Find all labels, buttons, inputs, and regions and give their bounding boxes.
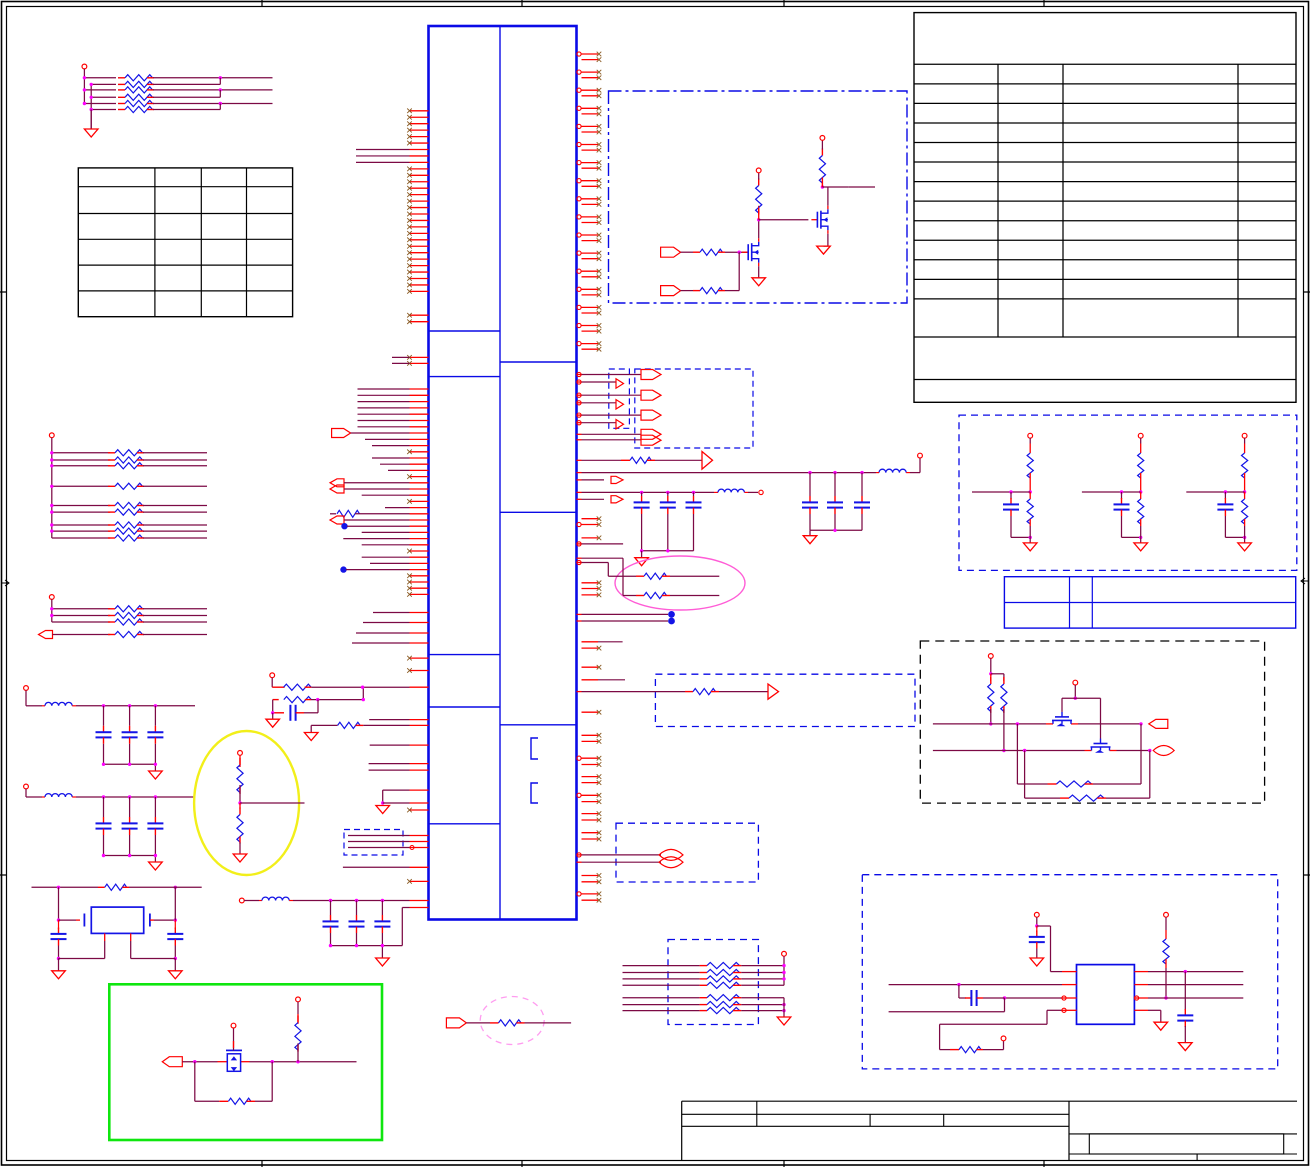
bypass resistor R27 bbox=[194, 1062, 196, 1102]
capacitor C4 bbox=[58, 920, 60, 929]
wire bbox=[104, 763, 156, 765]
wire bbox=[1244, 473, 1246, 492]
wire bbox=[1117, 750, 1150, 752]
wire bbox=[76, 796, 195, 798]
wire drain2 bbox=[827, 187, 829, 206]
wire bbox=[1010, 492, 1012, 499]
power pin bbox=[1242, 433, 1247, 438]
resistor bbox=[118, 100, 154, 106]
wire bbox=[343, 866, 410, 868]
wire bbox=[153, 89, 273, 91]
wire bbox=[1224, 516, 1226, 537]
pull-up resistor bbox=[1138, 453, 1144, 478]
ground bbox=[84, 129, 98, 137]
wire bbox=[153, 96, 220, 98]
capacitor bbox=[827, 496, 843, 514]
ground bbox=[304, 733, 318, 741]
wire bbox=[1082, 491, 1141, 493]
wire bbox=[129, 835, 131, 856]
power pin P3 bbox=[49, 595, 54, 600]
capacitor bbox=[147, 726, 163, 744]
pull-up resistor bbox=[1027, 453, 1033, 478]
crystal stem wires bbox=[104, 933, 106, 941]
power pin P11 bbox=[988, 654, 993, 659]
resistor array B row 2 bbox=[52, 459, 110, 461]
wire bbox=[741, 1004, 784, 1006]
resistor R21 bbox=[681, 290, 693, 292]
resistor bbox=[108, 528, 144, 534]
resistor R30 bbox=[990, 674, 992, 681]
wire bbox=[1010, 516, 1012, 537]
resistor R24 bbox=[237, 758, 243, 794]
wire bbox=[1121, 516, 1123, 537]
resistor R18 bbox=[623, 595, 636, 597]
node dot bbox=[340, 566, 346, 572]
ground bbox=[827, 234, 829, 246]
wire bbox=[143, 465, 207, 467]
IC U1 right pins x group bbox=[582, 581, 602, 598]
wire bbox=[143, 537, 207, 539]
ground bbox=[1036, 949, 1038, 959]
resistor array A row 1 wire bbox=[84, 77, 116, 79]
resistor array A row 2 wire bbox=[91, 83, 116, 85]
pull-down resistor bbox=[1140, 492, 1142, 499]
pull-up resistor bbox=[1242, 453, 1248, 478]
wire bbox=[577, 543, 582, 545]
ground bbox=[233, 854, 247, 862]
resistor array A row 3 wire bbox=[84, 89, 116, 91]
wire bbox=[351, 432, 410, 434]
inductor L3 bbox=[879, 469, 906, 472]
power pin P2 bbox=[49, 433, 54, 438]
resistor array D row 4 bbox=[623, 984, 700, 986]
wire bbox=[154, 744, 156, 765]
resistor array B row 6 bbox=[52, 511, 110, 513]
resistor R20 bbox=[681, 251, 693, 253]
wire bbox=[577, 414, 582, 416]
wire bbox=[369, 719, 409, 721]
wire bbox=[344, 519, 410, 521]
wire bbox=[143, 615, 207, 617]
resistor array B row 5 bbox=[52, 505, 110, 507]
power pin P16 bbox=[239, 898, 244, 903]
wire bbox=[58, 887, 60, 920]
input connector arrow bbox=[330, 516, 344, 524]
transistor Q5 bbox=[1085, 739, 1117, 753]
wire bbox=[143, 634, 207, 636]
wire bbox=[347, 525, 410, 527]
IC U1 section line bbox=[429, 330, 501, 332]
resistor array B row 1 bbox=[52, 452, 110, 454]
resistor R31 bbox=[1001, 677, 1007, 713]
ground bbox=[1154, 1022, 1168, 1030]
ground bbox=[58, 959, 60, 971]
inductor L4 bbox=[714, 491, 718, 493]
wire bbox=[1165, 917, 1167, 930]
wire bbox=[1140, 438, 1142, 443]
output connector lens J6 bbox=[1153, 746, 1174, 756]
wire bbox=[182, 1061, 217, 1063]
wire bbox=[76, 705, 195, 707]
wire bbox=[667, 492, 669, 496]
crystal Y1 body bbox=[91, 907, 143, 933]
ground bbox=[635, 558, 649, 566]
terminal circle bbox=[759, 490, 763, 494]
power pin P7 bbox=[821, 140, 823, 149]
wire bbox=[103, 797, 105, 817]
resistor bbox=[108, 457, 144, 463]
wire to ground bbox=[90, 110, 92, 130]
wire bbox=[642, 550, 694, 552]
dashed group box bbox=[668, 940, 758, 1025]
feedback resistor R32 bbox=[1016, 724, 1018, 784]
wire bbox=[343, 538, 409, 540]
wire bbox=[129, 886, 202, 888]
wire bbox=[25, 789, 27, 797]
green group box bbox=[109, 984, 382, 1140]
IC U1 left pins zone 1 bbox=[356, 109, 429, 325]
capacitor C5 bbox=[167, 928, 183, 946]
wire bbox=[293, 900, 331, 902]
wire bbox=[143, 524, 207, 526]
title block bbox=[682, 1101, 1297, 1160]
IC U1 left pins zone 3 bbox=[358, 389, 429, 427]
ground bbox=[1023, 543, 1037, 551]
output connector arrow bbox=[616, 379, 624, 388]
wire bbox=[174, 887, 176, 920]
wire bbox=[1029, 473, 1031, 492]
wire bbox=[1121, 492, 1123, 499]
ground bbox=[777, 1017, 791, 1025]
capacitor bbox=[122, 817, 138, 835]
resistor R26 bbox=[98, 886, 105, 888]
wire bbox=[693, 514, 695, 551]
wire bbox=[311, 686, 409, 688]
wire pin4 right bbox=[1134, 1009, 1148, 1011]
wire bbox=[143, 608, 207, 610]
wire input 1 bbox=[933, 723, 1046, 725]
input connector arrow bbox=[332, 429, 351, 438]
wire to node dot bbox=[577, 620, 582, 622]
capacitor bbox=[96, 817, 112, 835]
dashed group box bbox=[616, 823, 758, 882]
capacitor C8 bbox=[1184, 972, 1186, 1010]
power pin P15 bbox=[1164, 912, 1169, 917]
resistor array B row 4 bbox=[52, 485, 110, 487]
capacitor bbox=[854, 496, 870, 514]
resistor R22 bbox=[756, 179, 762, 215]
wire bbox=[348, 835, 410, 837]
wire bbox=[154, 706, 156, 726]
output connector arrows bbox=[330, 479, 344, 487]
capacitor bbox=[1114, 498, 1130, 516]
inductor bbox=[42, 705, 45, 707]
wire bbox=[348, 847, 410, 849]
wire bbox=[577, 562, 582, 564]
power pin P8 bbox=[238, 751, 243, 756]
IC U1 right pins zone 4 bbox=[577, 710, 601, 841]
resistor array C row 1 bbox=[52, 608, 110, 610]
ground bbox=[641, 551, 643, 558]
capacitor C20 bbox=[273, 712, 284, 714]
capacitor bbox=[660, 496, 676, 514]
crystal Y1 left plate bbox=[83, 914, 85, 927]
wire bbox=[577, 557, 582, 559]
wire bbox=[304, 712, 318, 714]
wire bbox=[154, 797, 156, 817]
dashed group box bbox=[959, 415, 1297, 570]
ground bbox=[266, 719, 280, 727]
wire bbox=[641, 492, 643, 496]
wire bbox=[143, 530, 207, 532]
ground bbox=[149, 771, 163, 779]
wire bbox=[834, 514, 836, 530]
dashed group box bbox=[609, 369, 630, 428]
ground bbox=[803, 536, 817, 544]
wire bbox=[577, 433, 582, 435]
resistor array A row 5 wire bbox=[84, 103, 116, 105]
wire to power bbox=[910, 472, 920, 474]
resistor array D row 3 bbox=[623, 978, 700, 980]
wire bbox=[861, 514, 863, 530]
left border zone arrow bbox=[1, 580, 9, 586]
crystal Y1 right plate bbox=[149, 914, 151, 927]
wire bbox=[143, 485, 207, 487]
wire bbox=[1140, 537, 1142, 543]
ground bbox=[1134, 543, 1148, 551]
power pin P10 bbox=[782, 951, 787, 956]
capacitor bbox=[374, 915, 390, 933]
capacitor C6 bbox=[1029, 931, 1045, 949]
wire bbox=[577, 394, 582, 396]
IC U1 section line bbox=[429, 654, 501, 656]
ground bbox=[169, 971, 183, 979]
transistor Q4 bbox=[1046, 712, 1078, 726]
resistor R12 bbox=[330, 513, 336, 515]
wire bbox=[1186, 491, 1244, 493]
dashed group box bbox=[655, 674, 915, 726]
ground bbox=[239, 843, 241, 855]
highlight ellipse (yellow) bbox=[194, 731, 299, 875]
wire bbox=[577, 381, 582, 383]
capacitor bbox=[802, 496, 818, 514]
wire bbox=[83, 69, 85, 78]
output connector arrow J3 bbox=[162, 1057, 182, 1067]
dashed group box bbox=[635, 369, 753, 448]
resistor array B row 3 bbox=[52, 465, 110, 467]
wire bbox=[990, 658, 992, 673]
revision table (empty) bbox=[78, 168, 292, 317]
IC U1 bracket mark bbox=[531, 783, 538, 803]
wire bbox=[1184, 1026, 1186, 1043]
output connector arrow bbox=[702, 452, 713, 470]
wire bbox=[143, 505, 207, 507]
capacitor bbox=[96, 726, 112, 744]
output connector arrow bbox=[641, 410, 661, 420]
capacitor C6 bbox=[1036, 926, 1038, 932]
inductor L5 bbox=[244, 900, 259, 902]
wire bbox=[401, 908, 403, 946]
wire bbox=[1140, 473, 1142, 492]
power pin bbox=[1028, 433, 1033, 438]
wire to ground bbox=[383, 789, 410, 791]
capacitor C7 series bbox=[958, 985, 960, 998]
wire bbox=[577, 861, 582, 863]
IC U1 section line bbox=[429, 706, 501, 708]
IC U3 body bbox=[1077, 965, 1135, 1025]
wire bbox=[383, 802, 410, 804]
power pin bbox=[24, 686, 29, 691]
ground bbox=[52, 971, 66, 979]
wire bbox=[1244, 537, 1246, 543]
ground bbox=[1179, 1043, 1193, 1051]
wire bbox=[834, 473, 836, 496]
wire bbox=[741, 1010, 784, 1012]
resistor bbox=[118, 75, 154, 81]
wire bbox=[153, 77, 273, 79]
power pin P12 bbox=[1073, 680, 1078, 685]
wire bbox=[741, 965, 784, 967]
IC U3 right wires bbox=[1134, 971, 1148, 973]
highlight dashed ellipse (pink) bbox=[480, 997, 544, 1045]
wire bbox=[741, 972, 784, 974]
resistor bbox=[108, 522, 144, 528]
resistor array A row 6 wire bbox=[91, 109, 116, 111]
wire bbox=[783, 998, 785, 1017]
resistor bbox=[108, 612, 144, 618]
resistor R34 bbox=[950, 1049, 959, 1051]
node dot bbox=[341, 523, 347, 529]
IC U1 left pins zone 2 bbox=[392, 355, 429, 366]
power pin P5 bbox=[918, 453, 923, 458]
ground bbox=[154, 764, 156, 771]
wire bbox=[240, 802, 305, 804]
dashed group box bbox=[862, 875, 1277, 1069]
resistor R30 bbox=[988, 677, 994, 713]
blue note table (empty) bbox=[1004, 577, 1295, 628]
ground bbox=[817, 246, 831, 254]
ground bbox=[1030, 958, 1044, 966]
input connector arrow bbox=[39, 631, 53, 639]
wire bbox=[983, 997, 1005, 999]
resistor bbox=[118, 81, 154, 87]
right border zone arrow bbox=[1301, 578, 1309, 584]
power pin P9 bbox=[231, 1023, 236, 1028]
IC U1 section line bbox=[500, 724, 577, 726]
wire bbox=[1078, 723, 1141, 725]
vertical bus wire bbox=[51, 599, 53, 622]
power pin P6 bbox=[758, 173, 760, 180]
IC U1 section line bbox=[429, 376, 501, 378]
resistor array D row 1 bbox=[623, 965, 700, 967]
resistor array C row 3 bbox=[52, 621, 110, 623]
resistor array E row 2 bbox=[623, 1004, 700, 1006]
wire bbox=[363, 724, 409, 726]
wire bbox=[809, 514, 811, 530]
output connector arrow bbox=[641, 370, 661, 380]
wire drain bbox=[758, 220, 760, 239]
wire bbox=[577, 439, 582, 441]
output connector arrow bbox=[616, 400, 624, 409]
wire bbox=[344, 488, 410, 490]
wire bbox=[174, 946, 176, 959]
resistor bbox=[108, 509, 144, 515]
output connector arrow bbox=[616, 420, 624, 429]
wire bottom loop bbox=[889, 1011, 1005, 1013]
IC U1 right pins zone 2 bbox=[577, 516, 601, 540]
output connector J5 bbox=[1149, 719, 1168, 728]
IC U1 section line bbox=[500, 511, 577, 513]
wire bbox=[129, 706, 131, 726]
ground bbox=[381, 946, 383, 958]
wire bbox=[1003, 709, 1005, 751]
resistor array B row 8 bbox=[52, 530, 110, 532]
resistor R15 bbox=[338, 722, 361, 728]
wire bbox=[25, 690, 27, 705]
capacitor C7 bbox=[965, 990, 983, 1006]
wire bbox=[1244, 438, 1246, 443]
wire input 2 bbox=[933, 750, 1085, 752]
wire bbox=[693, 492, 695, 496]
power pin P1 bbox=[82, 64, 87, 69]
wire bbox=[990, 709, 992, 724]
power pin bbox=[24, 784, 29, 789]
input connector arrow J4 bbox=[446, 1018, 466, 1028]
wire bbox=[719, 691, 768, 693]
wire bbox=[58, 946, 60, 959]
resistor array A row 4 wire bbox=[91, 96, 116, 98]
capacitor C1 bbox=[330, 901, 332, 916]
transistor bbox=[742, 238, 759, 266]
wire bbox=[239, 785, 241, 803]
ground bbox=[1238, 543, 1252, 551]
capacitor C2 bbox=[356, 901, 358, 916]
power pin P13 bbox=[1034, 912, 1039, 917]
IC U1 bracket mark bbox=[531, 738, 538, 759]
wire bbox=[103, 835, 105, 856]
resistor R28 bbox=[295, 1016, 301, 1052]
IC U1 right pins zone 5 bbox=[577, 873, 601, 902]
resistor array E row 3 bbox=[623, 1010, 700, 1012]
ground bbox=[272, 713, 274, 719]
input connector arrow J2 bbox=[661, 286, 681, 296]
wire output bbox=[822, 186, 848, 188]
long wire VDD rail bbox=[577, 472, 582, 474]
resistor array D row 2 bbox=[623, 972, 700, 974]
resistor R35 bbox=[1163, 939, 1169, 964]
pin table (empty) bbox=[914, 13, 1296, 403]
capacitor bbox=[1003, 498, 1019, 516]
power pin P14 bbox=[1001, 1036, 1006, 1041]
resistor bbox=[108, 450, 144, 456]
wire bbox=[810, 529, 862, 531]
resistor R23 bbox=[819, 149, 825, 185]
output connector lens bbox=[659, 857, 683, 868]
wire bbox=[143, 452, 207, 454]
resistor R29 bbox=[466, 1022, 490, 1024]
wire bbox=[153, 83, 220, 85]
arrow pin bbox=[577, 479, 582, 481]
resistor bbox=[118, 87, 154, 93]
wire bbox=[311, 699, 363, 701]
transistor bbox=[811, 206, 828, 234]
IC U1 left pins zone 4 bbox=[362, 439, 429, 596]
resistor bbox=[118, 94, 154, 100]
pull-up resistor R28 bbox=[296, 997, 301, 1002]
resistor bbox=[108, 619, 144, 625]
wire bbox=[1029, 438, 1031, 443]
IC U3 pin wires left bbox=[1062, 971, 1077, 973]
